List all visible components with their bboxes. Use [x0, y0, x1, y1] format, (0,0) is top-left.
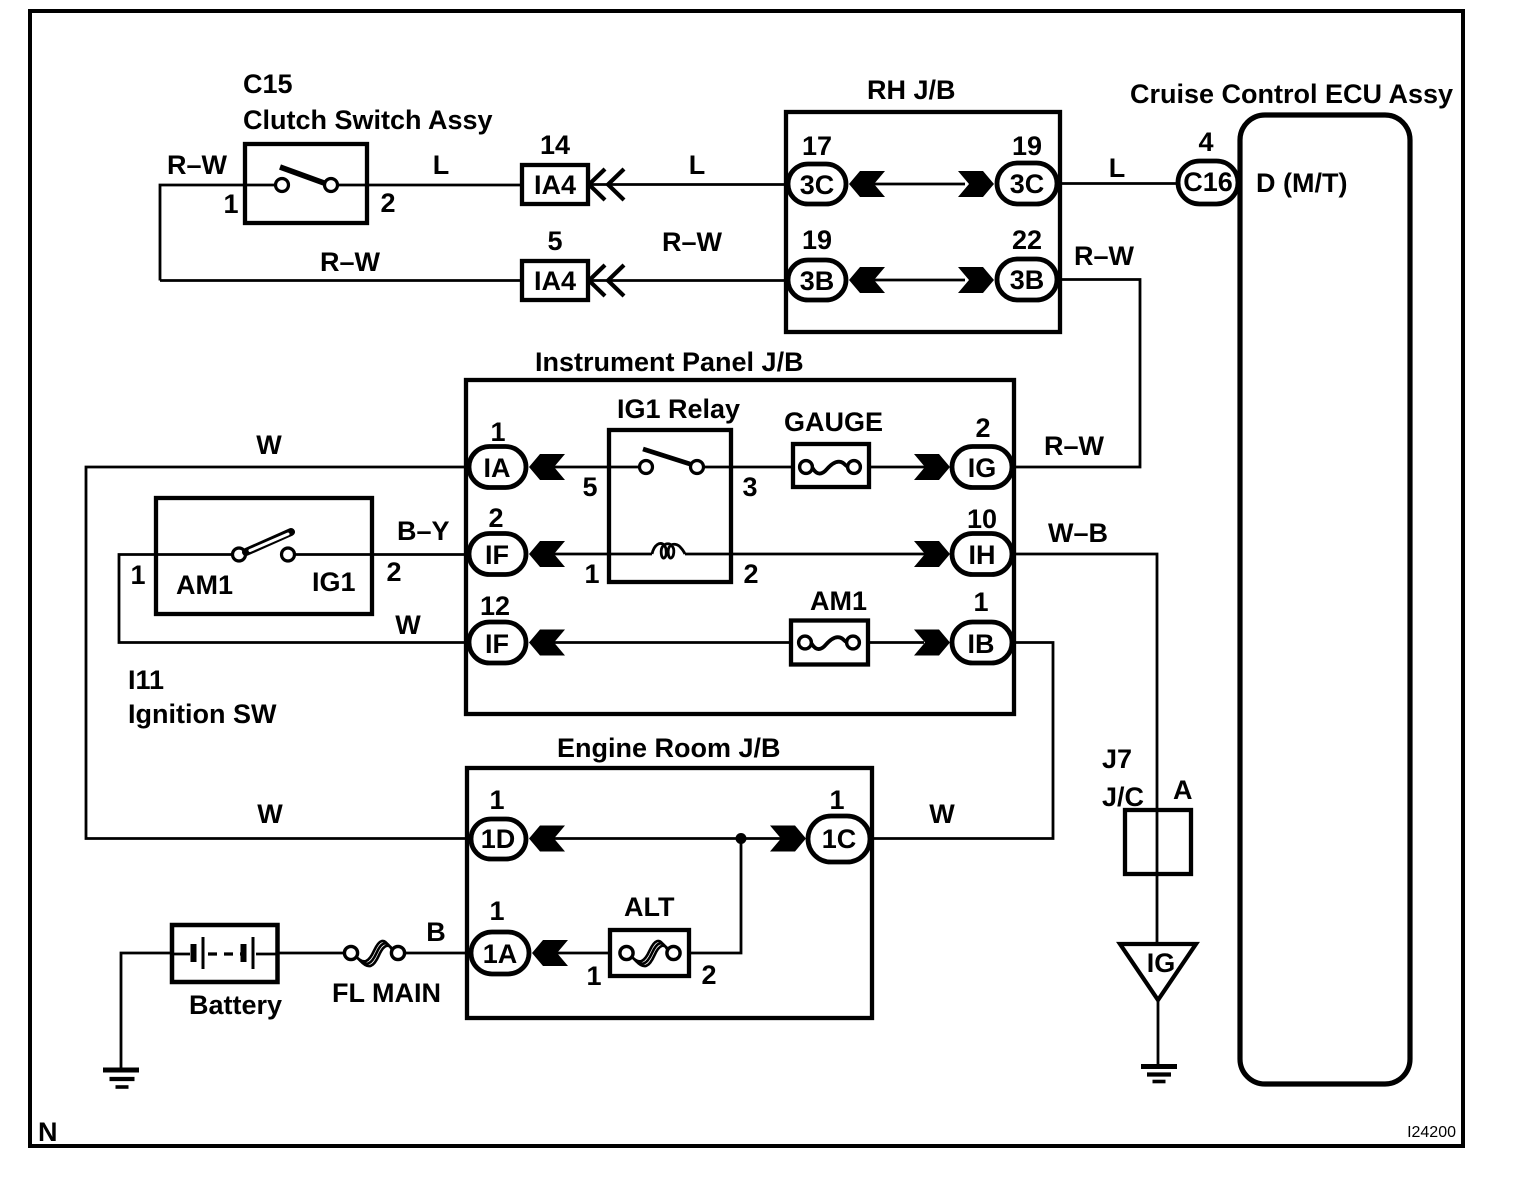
arrow into 3B 22 [958, 267, 994, 293]
svg-text:RH J/B: RH J/B [867, 75, 956, 105]
label R-W lower run [320, 247, 381, 277]
svg-text:R–W: R–W [662, 227, 723, 257]
arrow into IF 12 [529, 630, 565, 656]
svg-text:Ignition SW: Ignition SW [128, 699, 277, 729]
ignition lever [246, 532, 291, 552]
wire battery to FL MAIN [277, 952, 351, 955]
arrow into 1D [529, 826, 565, 852]
svg-text:IF: IF [485, 540, 509, 570]
wire relay coil pin 2 to IH arrow [685, 553, 926, 556]
pin 17 label [802, 131, 832, 161]
svg-text:GAUGE: GAUGE [784, 407, 883, 437]
wire L from chevron to RH J/B 3C [589, 183, 790, 186]
svg-text:IG: IG [1147, 948, 1176, 978]
relay pin 5 label [582, 472, 597, 502]
label Engine Room J/B [557, 733, 781, 763]
fusible link FL MAIN [344, 941, 404, 966]
ALT pin 1 label [586, 961, 601, 991]
svg-text:1: 1 [130, 560, 145, 590]
arrow into 3B 19 [849, 267, 885, 293]
pin 19 label row2 [802, 225, 832, 255]
label J7 [1102, 744, 1132, 774]
wire RH J/B 3B internal [874, 279, 965, 282]
IG1 relay box [609, 430, 731, 582]
figure number I24200 [1407, 1124, 1456, 1141]
svg-text:2: 2 [386, 557, 401, 587]
connector oval IG pin 2 [952, 447, 1012, 488]
pin 2 clutch [380, 188, 395, 218]
label R-W near IG [1044, 431, 1105, 461]
svg-text:IG1 Relay: IG1 Relay [617, 394, 740, 424]
svg-text:1A: 1A [483, 939, 518, 969]
connector oval C16 pin 4 [1178, 161, 1238, 204]
label R-W wire 3 [662, 227, 723, 257]
wire from IF 12 arrow to AM1 fuse [553, 641, 791, 644]
svg-text:19: 19 [1012, 131, 1042, 161]
arrow into 3C 19 [958, 171, 994, 197]
svg-text:N: N [38, 1117, 58, 1147]
pin 19 label [1012, 131, 1042, 161]
arrow into 1A [532, 940, 568, 966]
svg-text:L: L [433, 150, 450, 180]
AM1 fuse [791, 621, 868, 665]
label Clutch Switch Assy [243, 105, 493, 135]
label W top [256, 430, 282, 460]
label J/C [1102, 782, 1144, 812]
connector oval IH pin 10 [952, 534, 1012, 575]
label Battery [189, 990, 282, 1020]
svg-text:J7: J7 [1102, 744, 1132, 774]
label Ignition SW [128, 699, 277, 729]
label W wire to 1D [257, 799, 283, 829]
connector 14 IA4 [522, 165, 588, 204]
svg-text:1C: 1C [822, 824, 857, 854]
GAUGE fuse [793, 444, 869, 487]
label W wire from 1C [929, 799, 955, 829]
svg-text:1: 1 [489, 896, 504, 926]
Instrument Panel J/B box [466, 380, 1014, 714]
pin 1 1A label [489, 896, 504, 926]
label ALT [624, 892, 675, 922]
connector oval IA pin 1 [469, 447, 526, 488]
connector oval IF pin 12 [469, 622, 526, 663]
connector oval IF pin 2 [469, 534, 526, 575]
svg-text:2: 2 [743, 559, 758, 589]
svg-text:1: 1 [490, 417, 505, 447]
pin 10 label [967, 504, 997, 534]
svg-text:3B: 3B [800, 266, 835, 296]
svg-text:A: A [1173, 775, 1193, 805]
svg-text:R–W: R–W [167, 150, 228, 180]
page letter N [38, 1117, 58, 1147]
label AM1 terminal [176, 570, 233, 600]
ground triangle IG [1120, 944, 1196, 1000]
pin 1 clutch [223, 189, 238, 219]
wire IG triangle to ground [1157, 1000, 1160, 1065]
svg-text:L: L [689, 150, 706, 180]
svg-text:Instrument Panel J/B: Instrument Panel J/B [535, 347, 804, 377]
pin 2 IG label [975, 413, 990, 443]
battery [172, 925, 278, 982]
wire from IA arrow to IG1 relay pin 5 [553, 466, 640, 469]
arrow into IF [529, 541, 565, 567]
label D (M/T) [1256, 168, 1347, 198]
ignition switch I11 box [156, 498, 372, 614]
connector oval 1C pin 1 [808, 816, 870, 862]
ALT pin 2 label [701, 960, 716, 990]
label GAUGE [784, 407, 883, 437]
wire R-W from node at x160 to clutch switch pin 1 [160, 185, 245, 281]
pin 2 IF label [488, 503, 503, 533]
wire B FL MAIN to 1A [398, 952, 471, 955]
ground battery [103, 1070, 139, 1087]
svg-text:ALT: ALT [624, 892, 675, 922]
junction connector J7 J/C box [1125, 810, 1191, 874]
svg-text:2: 2 [975, 413, 990, 443]
connector oval 3C pin 17 [788, 164, 846, 204]
label B-Y [397, 516, 450, 546]
svg-text:IG: IG [968, 453, 997, 483]
pin 14 label [540, 130, 570, 160]
wire GAUGE fuse to IG arrow [869, 466, 926, 469]
svg-text:Engine Room J/B: Engine Room J/B [557, 733, 781, 763]
ground IG symbol [1141, 1067, 1177, 1082]
label A [1173, 775, 1193, 805]
ignition wire internal pin1 [156, 553, 232, 556]
svg-text:I24200: I24200 [1407, 1124, 1456, 1141]
ignition pin 2 label [386, 557, 401, 587]
ignition contact AM1 [233, 548, 246, 561]
arrow into 1C [770, 826, 806, 852]
relay pin 2 label [743, 559, 758, 589]
label I11 [128, 665, 164, 695]
junction dot [736, 833, 747, 844]
svg-text:IB: IB [968, 629, 995, 659]
svg-text:1: 1 [829, 785, 844, 815]
clutch switch lever [280, 167, 324, 183]
wire W ignition SW pin1 to IF 12 [119, 555, 469, 643]
ignition pin 1 label [130, 560, 145, 590]
pin 5 label [547, 226, 562, 256]
svg-text:W: W [256, 430, 282, 460]
pin 1 IA label [490, 417, 505, 447]
svg-text:IH: IH [969, 540, 996, 570]
label R-W top left [167, 150, 228, 180]
wire R-W from chevron to RH J/B 3B [589, 279, 790, 282]
connector oval 1A pin 1 [471, 932, 529, 974]
svg-text:1: 1 [584, 559, 599, 589]
svg-text:IG1: IG1 [312, 567, 356, 597]
wire R-W lower run to IA4 connector 5 [160, 279, 522, 282]
Engine Room J/B box [467, 768, 872, 1018]
relay contact left [640, 461, 653, 474]
label L wire [433, 150, 450, 180]
chevron arrows connector 14 [589, 169, 624, 200]
svg-text:1: 1 [973, 587, 988, 617]
label L wire 3 [1109, 153, 1126, 183]
relay lever [643, 449, 690, 464]
label RH J/B [867, 75, 956, 105]
pin 1 1C label [829, 785, 844, 815]
pin 4 label [1198, 127, 1213, 157]
label B [426, 917, 446, 947]
svg-text:AM1: AM1 [810, 586, 867, 616]
relay coil [652, 543, 685, 558]
connector oval 3B pin 22 [997, 259, 1057, 300]
svg-text:J/C: J/C [1102, 782, 1144, 812]
wire L clutch pin2 to IA4 connector 14 [338, 184, 522, 187]
label C15 [243, 69, 293, 99]
clutch switch contact pin 1 [276, 179, 289, 192]
svg-text:1: 1 [223, 189, 238, 219]
wire relay pin 3 to GAUGE fuse [703, 466, 793, 469]
svg-text:Cruise Control ECU Assy: Cruise Control ECU Assy [1130, 79, 1453, 109]
label W-B [1048, 518, 1108, 548]
svg-text:19: 19 [802, 225, 832, 255]
svg-text:3C: 3C [1010, 169, 1045, 199]
svg-text:5: 5 [582, 472, 597, 502]
wire B-Y ignition IG1 pin 2 to IF [295, 553, 469, 556]
connector oval IB pin 1 [952, 622, 1012, 663]
svg-text:10: 10 [967, 504, 997, 534]
svg-text:1: 1 [489, 785, 504, 815]
svg-text:Clutch Switch Assy: Clutch Switch Assy [243, 105, 493, 135]
wire W from IB down to 1C [870, 643, 1053, 839]
relay pin 3 label [742, 472, 757, 502]
wire RH J/B 3C internal [874, 183, 965, 186]
wire from IF arrow through relay coil row [553, 553, 652, 556]
svg-text:IF: IF [485, 629, 509, 659]
svg-text:1: 1 [586, 961, 601, 991]
svg-text:AM1: AM1 [176, 570, 233, 600]
svg-text:IA: IA [484, 453, 511, 483]
wire from junction down to ALT fuse pin 2 [689, 839, 741, 954]
svg-text:12: 12 [480, 591, 510, 621]
svg-text:1D: 1D [481, 824, 516, 854]
svg-text:2: 2 [701, 960, 716, 990]
svg-text:14: 14 [540, 130, 570, 160]
relay pin 1 label [584, 559, 599, 589]
svg-text:W: W [257, 799, 283, 829]
relay contact right [691, 461, 704, 474]
connector oval 1D pin 1 [471, 819, 526, 859]
svg-text:I11: I11 [128, 665, 164, 695]
connector oval 3C pin 19 [997, 163, 1057, 204]
svg-text:2: 2 [380, 188, 395, 218]
wire L from 3C 19 to C16 [1057, 182, 1180, 185]
wire AM1 fuse to IB arrow [868, 641, 924, 644]
ALT fuse [610, 930, 689, 976]
wire W from IA to ignition switch area [86, 467, 471, 839]
RH J/B box [786, 112, 1060, 332]
svg-text:R–W: R–W [320, 247, 381, 277]
pin 1 1D label [489, 785, 504, 815]
svg-text:IA4: IA4 [534, 266, 576, 296]
label IG1 Relay [617, 394, 740, 424]
connector 5 IA4 [522, 261, 588, 300]
clutch switch C15 box [245, 144, 367, 223]
arrow into IB [914, 630, 950, 656]
svg-text:C15: C15 [243, 69, 293, 99]
pin 12 label [480, 591, 510, 621]
svg-text:17: 17 [802, 131, 832, 161]
label R-W right of 3B [1074, 241, 1135, 271]
label W ignition wire [395, 610, 421, 640]
svg-text:W: W [395, 610, 421, 640]
clutch switch contact pin 2 [325, 179, 338, 192]
arrow into IG [914, 454, 950, 480]
label AM1 fuse [810, 586, 867, 616]
label Cruise Control ECU Assy [1130, 79, 1453, 109]
wire W-B from IH down through J7 J/C to IG triangle [1012, 554, 1157, 944]
pin 22 label [1012, 225, 1042, 255]
svg-text:3B: 3B [1010, 265, 1045, 295]
label Instrument Panel J/B [535, 347, 804, 377]
connector oval 3B pin 19 [788, 260, 846, 300]
wire battery to ground [121, 953, 172, 1068]
svg-text:L: L [1109, 153, 1126, 183]
label L wire 2 [689, 150, 706, 180]
Cruise Control ECU Assy box [1240, 115, 1410, 1084]
svg-text:B–Y: B–Y [397, 516, 450, 546]
arrow into 3C 17 [849, 171, 885, 197]
wire from 1D arrow to 1C arrow with junction [554, 837, 781, 840]
svg-text:IA4: IA4 [534, 170, 576, 200]
svg-text:R–W: R–W [1044, 431, 1105, 461]
svg-text:FL MAIN: FL MAIN [332, 978, 441, 1008]
svg-text:3C: 3C [800, 170, 835, 200]
svg-text:B: B [426, 917, 446, 947]
arrow into IA [529, 454, 565, 480]
svg-text:R–W: R–W [1074, 241, 1135, 271]
svg-text:3: 3 [742, 472, 757, 502]
svg-text:2: 2 [488, 503, 503, 533]
svg-text:W: W [929, 799, 955, 829]
wire R-W from 3B 22 down to IG [1012, 280, 1140, 468]
pin 1 IB label [973, 587, 988, 617]
svg-text:5: 5 [547, 226, 562, 256]
clutch switch wire stub pin1 [245, 184, 275, 187]
wire from 1A arrow to ALT fuse pin 1 [557, 952, 610, 955]
arrow into IH [914, 541, 950, 567]
svg-text:D (M/T): D (M/T) [1256, 168, 1347, 198]
svg-text:22: 22 [1012, 225, 1042, 255]
label FL MAIN [332, 978, 441, 1008]
ignition contact IG1 [282, 548, 295, 561]
label IG1 terminal [312, 567, 356, 597]
svg-text:C16: C16 [1183, 167, 1233, 197]
svg-text:Battery: Battery [189, 990, 282, 1020]
svg-text:W–B: W–B [1048, 518, 1108, 548]
svg-text:4: 4 [1198, 127, 1213, 157]
chevron arrows connector 5 [589, 265, 624, 296]
